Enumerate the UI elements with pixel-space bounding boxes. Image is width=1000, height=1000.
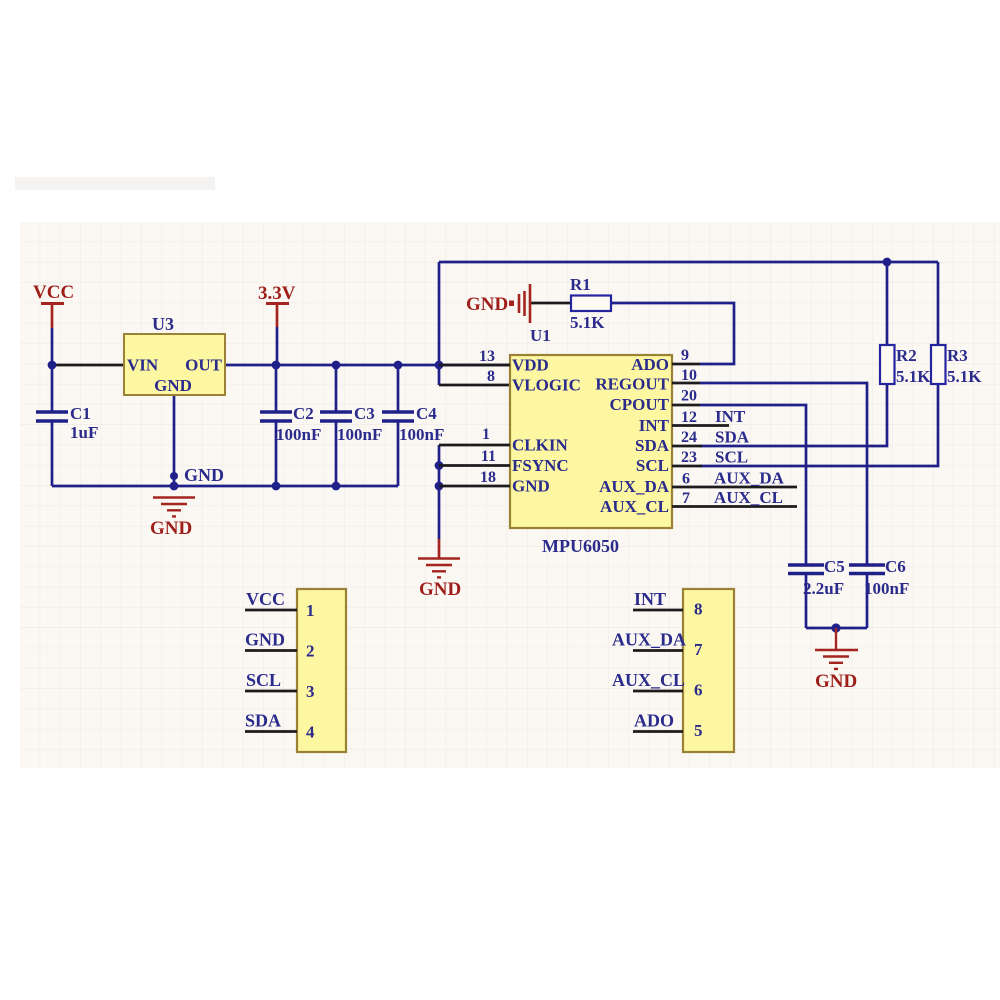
junction C2 bottom [272, 482, 281, 491]
junction C3 top [332, 361, 341, 370]
svg-text:FSYNC: FSYNC [512, 456, 569, 475]
capacitor C5 [788, 557, 845, 598]
svg-text:AUX_DA: AUX_DA [599, 477, 670, 496]
svg-text:5.1K: 5.1K [896, 367, 931, 386]
pin 7 AUX_CL [600, 490, 797, 516]
resistor R1 [570, 275, 611, 332]
svg-text:SDA: SDA [715, 428, 750, 447]
svg-text:C2: C2 [293, 404, 314, 423]
svg-text:6: 6 [682, 471, 690, 488]
svg-text:11: 11 [481, 448, 496, 465]
svg-text:3: 3 [306, 682, 315, 701]
net label SDA [715, 428, 750, 447]
svg-text:7: 7 [694, 640, 703, 659]
junction VCC/C1 [48, 361, 57, 370]
connector P1 body [297, 589, 346, 752]
pin 18 GND [439, 469, 550, 496]
svg-text:100nF: 100nF [276, 425, 321, 444]
svg-text:3.3V: 3.3V [258, 283, 296, 304]
net label SCL [715, 448, 748, 467]
pin 8 VLOGIC [487, 368, 581, 395]
pin 7 AUX_DA [612, 630, 703, 660]
svg-text:C3: C3 [354, 404, 375, 423]
svg-text:INT: INT [715, 407, 746, 426]
power VCC [33, 282, 74, 304]
wire REGOUT to C6 [700, 383, 867, 628]
svg-text:CLKIN: CLKIN [512, 436, 568, 455]
svg-text:REGOUT: REGOUT [595, 375, 669, 394]
pin 3 SCL [245, 670, 315, 701]
pin 23 SCL [636, 449, 702, 475]
svg-text:U1: U1 [530, 326, 551, 345]
power 3.3V [258, 283, 296, 304]
svg-text:20: 20 [681, 388, 697, 405]
svg-text:10: 10 [681, 367, 697, 384]
svg-text:GND: GND [245, 630, 285, 650]
junction GND row [435, 482, 444, 491]
gnd reference U1 [466, 284, 551, 345]
pin 8 INT [633, 589, 703, 619]
capacitor C6 [849, 557, 909, 598]
svg-text:GND: GND [419, 579, 461, 600]
svg-text:SCL: SCL [246, 670, 281, 690]
svg-text:18: 18 [480, 469, 496, 486]
capacitor C4 [382, 404, 444, 444]
svg-text:VDD: VDD [512, 356, 549, 375]
wire VLOGIC feed [439, 384, 510, 387]
svg-text:VIN: VIN [127, 356, 159, 375]
pin 6 AUX_CL [612, 670, 703, 700]
svg-text:1: 1 [482, 426, 490, 443]
wire R1 right to ADO [611, 303, 734, 364]
wire R3 top drop [937, 262, 940, 345]
svg-text:C1: C1 [70, 404, 91, 423]
svg-text:GND: GND [815, 671, 857, 692]
svg-text:9: 9 [681, 347, 689, 364]
net label GND at U3 [184, 465, 224, 485]
wire U3 GND stem [173, 395, 176, 486]
svg-text:1uF: 1uF [70, 423, 98, 442]
pin 20 CPOUT [610, 388, 701, 415]
junction VDD rail [435, 361, 444, 370]
svg-text:C6: C6 [885, 557, 906, 576]
wire R2 bottom to SDA net [700, 384, 887, 446]
svg-text:AUX_DA: AUX_DA [714, 469, 785, 488]
svg-text:OUT: OUT [185, 356, 223, 375]
wire C3 branch [335, 365, 338, 486]
svg-text:SCL: SCL [715, 448, 748, 467]
svg-text:AUX_CL: AUX_CL [612, 670, 685, 690]
svg-text:GND: GND [150, 518, 192, 539]
svg-text:C4: C4 [416, 404, 437, 423]
svg-text:R3: R3 [947, 346, 968, 365]
svg-text:CPOUT: CPOUT [610, 395, 670, 414]
pin 5 ADO [633, 711, 703, 741]
regulator U3 [124, 314, 225, 395]
capacitor C1 [36, 404, 98, 442]
wire CLKIN/FSYNC/GND vertical [438, 445, 441, 558]
svg-text:U3: U3 [152, 314, 174, 334]
ground under C5 C6 [815, 628, 858, 692]
svg-text:AUX_CL: AUX_CL [600, 497, 669, 516]
svg-text:6: 6 [694, 681, 703, 700]
svg-text:4: 4 [306, 723, 315, 742]
ground under U3 rail [150, 498, 195, 540]
capacitor C3 [320, 404, 382, 444]
svg-text:VCC: VCC [246, 589, 285, 609]
svg-text:AUX_CL: AUX_CL [714, 488, 783, 507]
wire VCC stem [51, 305, 54, 365]
svg-text:VCC: VCC [33, 282, 74, 303]
svg-text:GND: GND [184, 465, 224, 485]
junction U3 gnd rail [170, 482, 179, 491]
svg-text:13: 13 [479, 348, 495, 365]
svg-text:7: 7 [682, 490, 690, 507]
wire C5/C6 ground join [806, 627, 867, 630]
wire vertical to VDD/VLOGIC [438, 262, 441, 385]
pin 6 AUX_DA [599, 471, 797, 497]
svg-text:SCL: SCL [636, 456, 669, 475]
pin 10 REGOUT [595, 367, 700, 394]
svg-text:C5: C5 [824, 557, 845, 576]
pin 1 VCC [245, 589, 315, 620]
resistor R3 [931, 345, 982, 386]
pin 2 GND [245, 630, 315, 661]
svg-text:100nF: 100nF [337, 425, 382, 444]
svg-text:ADO: ADO [631, 355, 669, 374]
wire CPOUT to C5 [700, 405, 806, 628]
wire 3.3V top feed rail [439, 261, 938, 264]
svg-text:8: 8 [694, 600, 703, 619]
svg-text:ADO: ADO [634, 711, 674, 731]
pin 12 INT [639, 409, 729, 435]
svg-text:GND: GND [154, 376, 192, 395]
svg-text:23: 23 [681, 449, 697, 466]
pin 13 VDD [439, 348, 549, 375]
wire C4 branch [397, 365, 400, 486]
svg-text:100nF: 100nF [399, 425, 444, 444]
junction 3.3V/C2 [272, 361, 281, 370]
wire ground rail bottom [52, 485, 398, 488]
pin 9 ADO [631, 347, 700, 374]
svg-text:2: 2 [306, 642, 315, 661]
net label INT [715, 407, 746, 426]
svg-text:R1: R1 [570, 275, 591, 294]
op-amp U? MPU6050 body [510, 355, 672, 556]
wire R2 top drop [886, 262, 889, 345]
junction U3 gnd label [170, 472, 178, 480]
svg-text:5: 5 [694, 721, 703, 740]
junction C3 bottom [332, 482, 341, 491]
svg-text:MPU6050: MPU6050 [542, 536, 619, 556]
pin 4 SDA [245, 711, 315, 742]
svg-text:VLOGIC: VLOGIC [512, 376, 581, 395]
wire 3.3V stem [276, 305, 279, 365]
wire R3 bottom to SCL net [700, 384, 938, 466]
junction FSYNC row [435, 461, 444, 470]
svg-text:24: 24 [681, 429, 697, 446]
wire R1 left lead [530, 302, 571, 305]
svg-text:2.2uF: 2.2uF [803, 579, 844, 598]
svg-text:8: 8 [487, 368, 495, 385]
svg-text:1: 1 [306, 601, 315, 620]
svg-text:GND: GND [466, 294, 508, 315]
svg-text:SDA: SDA [245, 711, 281, 731]
svg-text:5.1K: 5.1K [947, 367, 982, 386]
svg-text:GND: GND [512, 477, 550, 496]
connector P2 body [683, 589, 734, 752]
net label AUX_CL [714, 488, 783, 507]
ground under MPU left [418, 559, 461, 601]
wire OUT to VDD rail [225, 364, 510, 367]
junction C5/C6 gnd [831, 623, 840, 632]
resistor R2 [880, 345, 931, 386]
wire C1 branch [51, 365, 54, 486]
wire VCC to VIN [52, 364, 124, 367]
svg-text:SDA: SDA [635, 436, 670, 455]
svg-text:AUX_DA: AUX_DA [612, 630, 686, 650]
svg-text:INT: INT [634, 589, 666, 609]
svg-text:R2: R2 [896, 346, 917, 365]
capacitor C2 [260, 404, 321, 444]
pin 24 SDA [635, 429, 702, 455]
svg-text:INT: INT [639, 416, 670, 435]
junction C4 top [394, 361, 403, 370]
svg-text:5.1K: 5.1K [570, 313, 605, 332]
wire C2 branch [275, 365, 278, 486]
junction top rail R2 [883, 258, 892, 267]
net label AUX_DA [714, 469, 785, 488]
svg-text:100nF: 100nF [864, 579, 909, 598]
pin 1 CLKIN [439, 426, 568, 455]
svg-text:12: 12 [681, 409, 697, 426]
pin 11 FSYNC [439, 448, 569, 475]
